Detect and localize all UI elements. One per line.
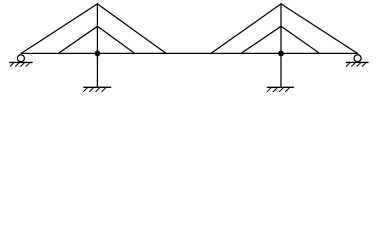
- fixed support right tower base: [267, 87, 294, 92]
- cable right tower inner-left: [241, 26, 281, 53]
- roller support left end: [9, 55, 33, 67]
- hinge node right tower-deck: [278, 51, 284, 57]
- cable left tower inner-left: [58, 26, 97, 53]
- cable left tower outer-left: [21, 4, 97, 54]
- right tower mast: [280, 4, 282, 87]
- cable left tower inner-right: [97, 26, 134, 53]
- fixed support left tower base: [83, 87, 111, 92]
- cable right tower inner-right: [281, 26, 320, 53]
- cable right tower outer-right: [281, 4, 358, 54]
- hinge node left tower-deck: [95, 51, 101, 57]
- cable left tower outer-right: [97, 4, 166, 54]
- left tower mast: [96, 4, 98, 87]
- roller support right end: [346, 55, 369, 67]
- deck beam: [21, 52, 358, 54]
- cable right tower outer-left: [211, 4, 281, 54]
